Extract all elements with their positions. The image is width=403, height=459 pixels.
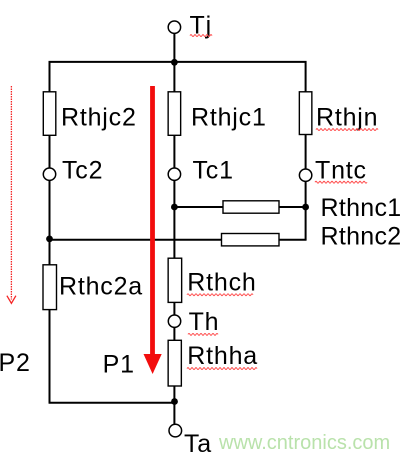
resistor Rthnc2 horizontal: [222, 234, 280, 246]
resistor Rthjn: [299, 92, 312, 135]
wire Rthnc2 to right corner: [279, 239, 307, 241]
wire left branch Rthc2a to bottom bus: [49, 310, 51, 403]
resistor Rthjc1: [168, 92, 181, 136]
resistor Rthc2a: [43, 265, 57, 310]
wire node Tc1 to Rthnc1: [174, 206, 223, 208]
svg-text:www.cntronics.com: www.cntronics.com: [218, 432, 390, 454]
wire middle branch Rthch to Th: [173, 302, 175, 315]
svg-text:P1: P1: [103, 351, 135, 379]
svg-text:Rthjc2: Rthjc2: [61, 103, 137, 131]
svg-text:Tntc: Tntc: [315, 156, 367, 184]
wire middle branch top to Rthjc1: [173, 62, 175, 92]
svg-text:Tj: Tj: [190, 11, 212, 39]
svg-text:Rthjc1: Rthjc1: [191, 103, 267, 131]
junction dot at Tj bus: [171, 59, 178, 66]
svg-text:Ta: Ta: [184, 430, 212, 458]
wire middle branch Tc1 to Rthch: [173, 180, 175, 258]
wire middle branch Th to Rthha: [173, 327, 175, 340]
spellcheck squiggle under Th: [188, 334, 218, 336]
wire left branch Tc2 to junction: [49, 180, 51, 240]
wire left branch junction to Rthc2a: [49, 240, 51, 265]
svg-text:Rthch: Rthch: [187, 269, 256, 297]
wire right branch Tntc to corner: [305, 181, 307, 240]
resistor Rthha: [168, 340, 181, 386]
node Tc2 terminal circle: [43, 168, 55, 180]
node Tj terminal circle: [168, 21, 180, 33]
svg-text:P2: P2: [0, 349, 31, 377]
node Tc1 terminal circle: [168, 168, 180, 180]
wire middle branch Rthha to Ta: [173, 386, 175, 425]
wire bottom horizontal bus: [49, 402, 175, 404]
wire top horizontal bus: [50, 62, 306, 92]
wire Rthnc1 to right branch: [279, 206, 306, 208]
svg-text:Rthnc2: Rthnc2: [321, 223, 402, 251]
wire left branch Rthjc2 to Tc2: [49, 135, 51, 168]
svg-text:Rthjn: Rthjn: [316, 103, 378, 131]
spellcheck squiggle under Tntc: [315, 181, 367, 183]
power arrow P1 red: [144, 86, 162, 374]
svg-text:Tc1: Tc1: [193, 156, 234, 184]
wire Tj stem: [173, 34, 175, 63]
node Ta terminal circle: [169, 424, 182, 437]
wire middle branch Rthjc1 to Tc1: [173, 135, 175, 168]
junction dot bottom bus: [171, 398, 178, 405]
node Tntc terminal circle: [299, 169, 311, 181]
spellcheck squiggle under Rthch: [187, 294, 253, 296]
svg-text:Tc2: Tc2: [62, 156, 103, 184]
wire right branch Rthjn to Tntc: [305, 135, 307, 170]
spellcheck squiggle under Rthjn: [316, 129, 378, 131]
junction dot left branch at Rthnc2 bus: [46, 236, 53, 243]
power arrow P2 red dashed: [7, 86, 16, 303]
spellcheck squiggle under Rthha: [187, 368, 257, 370]
resistor Rthjc2: [43, 92, 56, 136]
node Th terminal circle: [168, 315, 180, 327]
resistor Rthnc1 horizontal: [223, 201, 279, 213]
svg-text:Rthnc1: Rthnc1: [321, 194, 402, 222]
svg-text:Th: Th: [189, 308, 220, 336]
svg-text:Rthha: Rthha: [187, 342, 258, 370]
junction dot node Tc1 at Rthnc1: [171, 204, 178, 211]
junction dot right branch at Rthnc1: [302, 204, 309, 211]
spellcheck squiggle under Tj: [190, 35, 212, 37]
svg-text:Rthc2a: Rthc2a: [59, 272, 143, 300]
wire left junction to Rthnc2: [50, 239, 222, 241]
resistor Rthch: [168, 258, 182, 302]
